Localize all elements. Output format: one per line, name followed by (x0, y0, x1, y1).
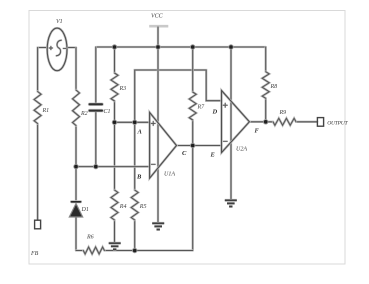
svg-text:R2: R2 (80, 111, 88, 117)
terminal OUTPUT (317, 118, 323, 127)
frame border (29, 11, 345, 265)
svg-text:R1: R1 (42, 108, 50, 114)
diode D1 (69, 202, 82, 217)
svg-text:R8: R8 (270, 84, 278, 90)
svg-text:C: C (182, 150, 187, 157)
svg-text:R3: R3 (119, 86, 127, 92)
svg-text:OUTPUT: OUTPUT (327, 120, 348, 126)
svg-text:D1: D1 (81, 207, 89, 213)
VCC power symbol (149, 26, 168, 47)
op-amp U2A (222, 91, 250, 153)
wire feedback node A to node D (135, 70, 222, 122)
terminal FB (35, 220, 41, 229)
voltage source V1 (47, 28, 67, 71)
resistor R7 (189, 92, 196, 120)
wire V1 right lead (67, 46, 76, 48)
resistor R6 (83, 247, 104, 254)
wire node C down to bottom rail (192, 146, 194, 251)
wire left branch R1 to FB terminal (36, 48, 38, 92)
svg-text:A: A (137, 129, 143, 136)
resistor R9 (273, 118, 296, 125)
wire C1 bottom lead to node B (95, 112, 97, 167)
svg-text:C1: C1 (104, 109, 111, 115)
wire R5 branch node A to bottom rail (134, 122, 136, 190)
wire node A to U1A plus input (115, 121, 150, 123)
wire U2A output node F (249, 121, 273, 123)
svg-text:U2A: U2A (236, 147, 247, 153)
svg-text:R4: R4 (119, 203, 127, 210)
op-amp U1A (150, 112, 177, 178)
ground under U2A (225, 200, 237, 206)
ground under R4 (109, 243, 121, 249)
svg-text:F: F (255, 128, 260, 135)
resistor R5 (131, 190, 138, 220)
resistor R3 (111, 73, 118, 101)
resistor R2 (73, 90, 80, 126)
wire R7 branch rail to node C (192, 47, 194, 92)
capacitor C1 (90, 103, 102, 106)
svg-text:D: D (212, 109, 218, 116)
resistor R1 (34, 92, 41, 124)
svg-text:R5: R5 (139, 204, 147, 210)
wire node B to U1A minus input (76, 165, 150, 167)
wire R8 branch rail to node F (265, 47, 267, 72)
svg-text:FB: FB (30, 251, 39, 257)
wire bottom rail (76, 249, 83, 251)
wire node C to node E (177, 144, 222, 146)
wire R2 branch down through node B to diode and bottom rail (75, 48, 77, 91)
wire R9 to output terminal (296, 121, 317, 123)
svg-text:V1: V1 (56, 19, 63, 25)
wire top VCC rail (96, 46, 265, 48)
wire R3-R4 branch (113, 47, 115, 73)
svg-text:E: E (210, 152, 216, 159)
ground under U1A (152, 223, 164, 229)
svg-text:R9: R9 (279, 110, 287, 116)
wire C1 top lead from rail (95, 47, 97, 103)
svg-text:R7: R7 (197, 105, 206, 111)
svg-text:U1A: U1A (164, 172, 175, 178)
wire U2A power pins rail to ground (230, 47, 232, 200)
svg-text:VCC: VCC (151, 14, 164, 20)
resistor R4 (111, 190, 118, 220)
svg-text:B: B (136, 174, 142, 181)
svg-text:R6: R6 (86, 235, 94, 241)
wire U1A power pins rail to ground (157, 47, 159, 223)
resistor R8 (262, 72, 269, 99)
wire V1 left lead (38, 46, 48, 48)
